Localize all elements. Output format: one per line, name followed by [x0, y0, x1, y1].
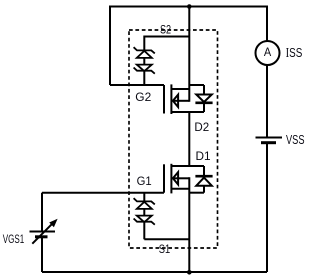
svg-text:S1: S1 [159, 243, 170, 257]
svg-text:G1: G1 [137, 173, 152, 188]
svg-text:A: A [264, 47, 272, 59]
svg-text:S2: S2 [160, 23, 171, 37]
svg-text:G2: G2 [135, 90, 151, 104]
svg-text:VSS: VSS [286, 134, 304, 148]
svg-text:VGS1: VGS1 [3, 234, 25, 247]
svg-text:D2: D2 [194, 120, 209, 134]
svg-text:ISS: ISS [286, 45, 303, 61]
svg-text:D1: D1 [196, 149, 211, 163]
